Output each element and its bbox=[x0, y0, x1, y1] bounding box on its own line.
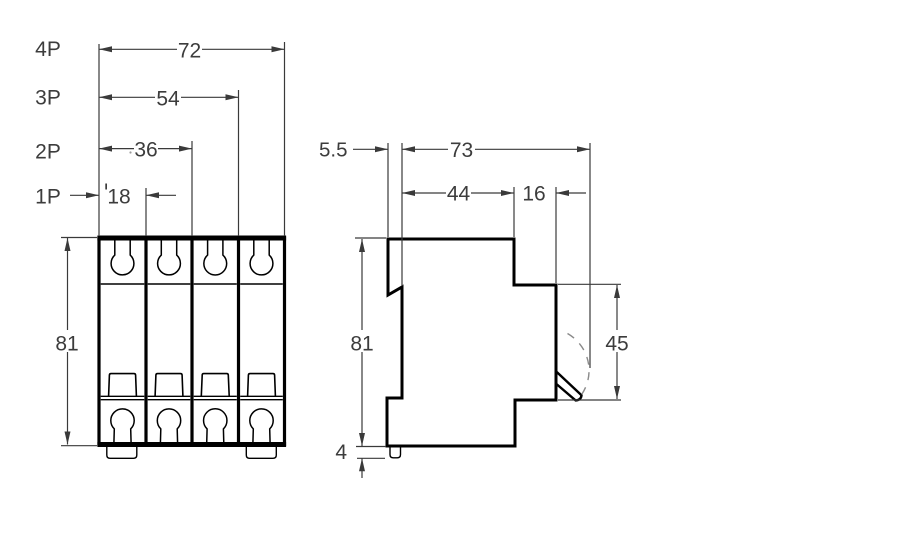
dimension 81 (front height) bbox=[61, 237, 97, 239]
pole module 4: double face lines bbox=[240, 395, 283, 397]
pole module 3: bottom keyhole terminal bbox=[204, 409, 227, 443]
svg-text:16: 16 bbox=[522, 183, 545, 206]
pole module 2: top keyhole terminal bbox=[158, 240, 181, 275]
dimension 73 (overall depth) bbox=[402, 148, 448, 150]
svg-text:54: 54 bbox=[156, 87, 180, 110]
front view: MCB 4-pole body outline bbox=[97, 238, 286, 445]
right mounting foot bbox=[246, 445, 276, 459]
svg-text:81: 81 bbox=[55, 333, 78, 356]
pole module 4: toggle handle bbox=[248, 374, 276, 396]
svg-text:73: 73 bbox=[450, 139, 473, 162]
pole module 2: bottom keyhole terminal bbox=[157, 409, 180, 443]
dimension 44 (top face depth) bbox=[402, 192, 446, 194]
dimension 81 (side height) bbox=[355, 237, 386, 239]
side view: MCB profile outline bbox=[387, 239, 556, 446]
pole module 4: face line under terminal bbox=[240, 283, 283, 285]
svg-text:2P: 2P bbox=[35, 141, 61, 164]
dimension 18 (1P width), outside arrows bbox=[70, 194, 99, 196]
toggle lever (side, angled) bbox=[556, 372, 582, 401]
svg-text:4: 4 bbox=[335, 441, 347, 464]
dimension 72 (4P overall width) bbox=[99, 48, 177, 50]
svg-text:5.5: 5.5 bbox=[319, 139, 348, 162]
svg-text:1P: 1P bbox=[35, 186, 61, 209]
lever travel arc (dashed) bbox=[568, 334, 590, 399]
left mounting foot bbox=[107, 445, 137, 459]
module divider lines bbox=[144, 238, 147, 445]
svg-text:4P: 4P bbox=[35, 38, 61, 61]
pole module 2: double face lines bbox=[148, 395, 191, 397]
pole module 1: double face lines bbox=[101, 395, 145, 397]
pole module 3: face line under terminal bbox=[194, 283, 237, 285]
pole module 1: top keyhole terminal bbox=[111, 240, 134, 275]
pole module 1: toggle handle bbox=[109, 374, 137, 396]
extension lines for side dimensions bbox=[387, 143, 389, 237]
dimension 45 (front face height) bbox=[558, 283, 621, 285]
pole module 2: toggle handle bbox=[155, 374, 183, 396]
svg-text:45: 45 bbox=[605, 333, 628, 356]
svg-text:3P: 3P bbox=[35, 87, 61, 110]
pole module 4: top keyhole terminal bbox=[250, 240, 273, 275]
svg-text:18: 18 bbox=[107, 185, 130, 208]
side view mounting foot bbox=[390, 446, 401, 458]
pole module 3: toggle handle bbox=[201, 374, 229, 396]
svg-text:81: 81 bbox=[350, 333, 373, 356]
dimension 4 (foot height), outside arrows bbox=[357, 457, 385, 459]
pole module 4: bottom keyhole terminal bbox=[250, 409, 273, 443]
svg-text:72: 72 bbox=[178, 39, 201, 62]
pole module 1: face line under terminal bbox=[101, 283, 145, 285]
extension lines for width dimensions bbox=[98, 44, 100, 236]
pole module 3: top keyhole terminal bbox=[204, 240, 227, 275]
dimension 54 (3P width) bbox=[99, 96, 155, 98]
pole module 2: face line under terminal bbox=[148, 283, 191, 285]
dimension 36 (2P width) bbox=[99, 148, 134, 150]
pole module 3: double face lines bbox=[194, 395, 237, 397]
pole module 1: bottom keyhole terminal bbox=[111, 409, 134, 443]
svg-text:44: 44 bbox=[447, 183, 471, 206]
svg-text:36: 36 bbox=[134, 139, 157, 162]
